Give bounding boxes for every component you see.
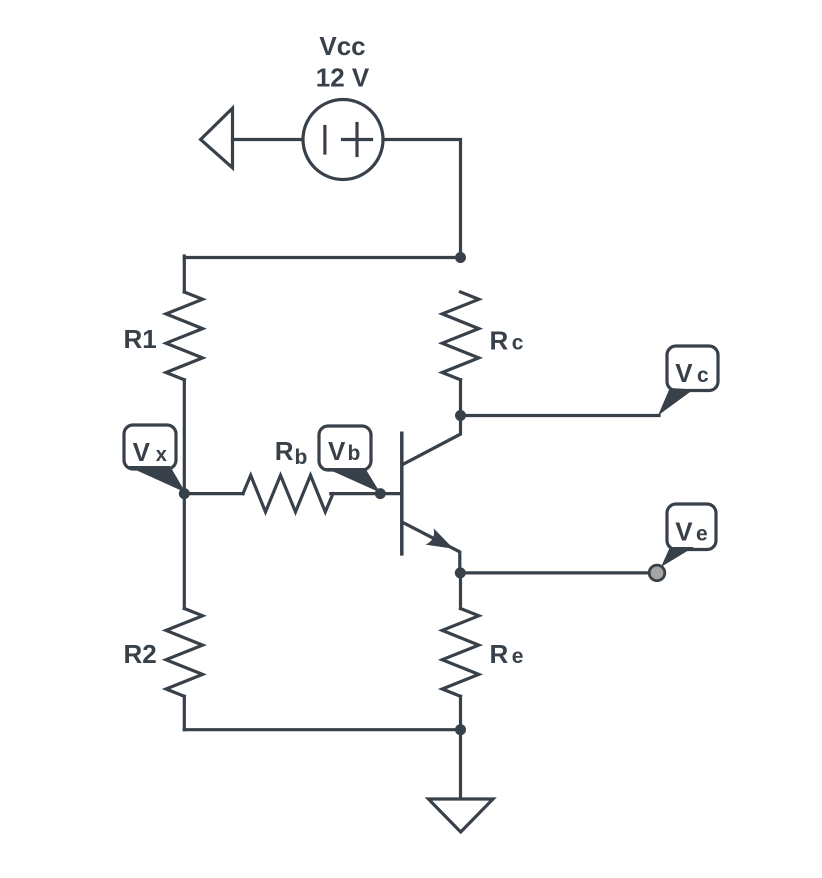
node emitter junction [455, 567, 466, 578]
voltage source V1 [303, 100, 383, 180]
svg-text:Vcc: Vcc [319, 31, 365, 61]
svg-text:x: x [156, 444, 167, 466]
resistor Re [442, 609, 479, 697]
svg-text:R1: R1 [124, 324, 157, 354]
callout Vc [658, 346, 718, 416]
wire Vx node to Rb [184, 492, 243, 495]
transistor Q1 base bar [400, 433, 404, 554]
node base junction [375, 488, 386, 499]
port Ve terminal [649, 565, 665, 581]
svg-text:b: b [295, 446, 308, 469]
wire Rb to base [331, 492, 400, 495]
node Vx junction [179, 488, 190, 499]
label Rb [275, 436, 308, 469]
callout Vx [124, 425, 186, 493]
callout Vb [319, 426, 380, 493]
svg-text:V: V [328, 436, 346, 466]
wire bottom horizontal [184, 728, 460, 731]
wire left rail to bottom [183, 696, 186, 729]
transistor Q1 emitter arrow [426, 528, 454, 549]
resistor R1 [166, 292, 203, 380]
wire ground stem [459, 730, 462, 800]
node collector junction [455, 410, 466, 421]
transistor Q1 collector lead [403, 416, 461, 465]
ground [428, 799, 493, 832]
resistor Rb [243, 475, 333, 512]
node ground junction [455, 724, 466, 735]
wire Re to ground node [459, 696, 462, 729]
node top right junction [455, 252, 466, 263]
svg-text:V: V [675, 517, 693, 547]
wire left rail middle [183, 380, 186, 494]
resistor Rc [442, 292, 479, 380]
svg-text:R2: R2 [124, 639, 157, 669]
label Vcc value [316, 31, 370, 92]
svg-text:Rc: Rc [490, 326, 524, 356]
wire emitter to Re [459, 573, 462, 609]
off-page connector arrow [201, 108, 233, 168]
svg-text:V: V [133, 437, 151, 467]
callout Ve [661, 504, 716, 567]
wire source to right rail corner [383, 140, 461, 258]
svg-text:c: c [697, 364, 709, 387]
svg-text:V: V [675, 358, 693, 388]
transistor Q1 emitter lead [403, 523, 460, 573]
resistor R2 [166, 609, 203, 697]
svg-text:e: e [696, 523, 708, 546]
wire top horizontal [184, 256, 460, 259]
svg-text:Re: Re [490, 639, 524, 669]
svg-text:12 V: 12 V [316, 62, 370, 92]
wire Rc to collector node [459, 380, 462, 416]
wire emitter to Ve port [460, 571, 650, 574]
svg-text:b: b [348, 442, 361, 465]
wire left rail lower [183, 494, 186, 609]
wire left rail upper [183, 256, 186, 292]
wire collector to Vc [461, 414, 660, 417]
wire arrow to source [233, 138, 304, 141]
svg-text:R: R [275, 436, 294, 466]
